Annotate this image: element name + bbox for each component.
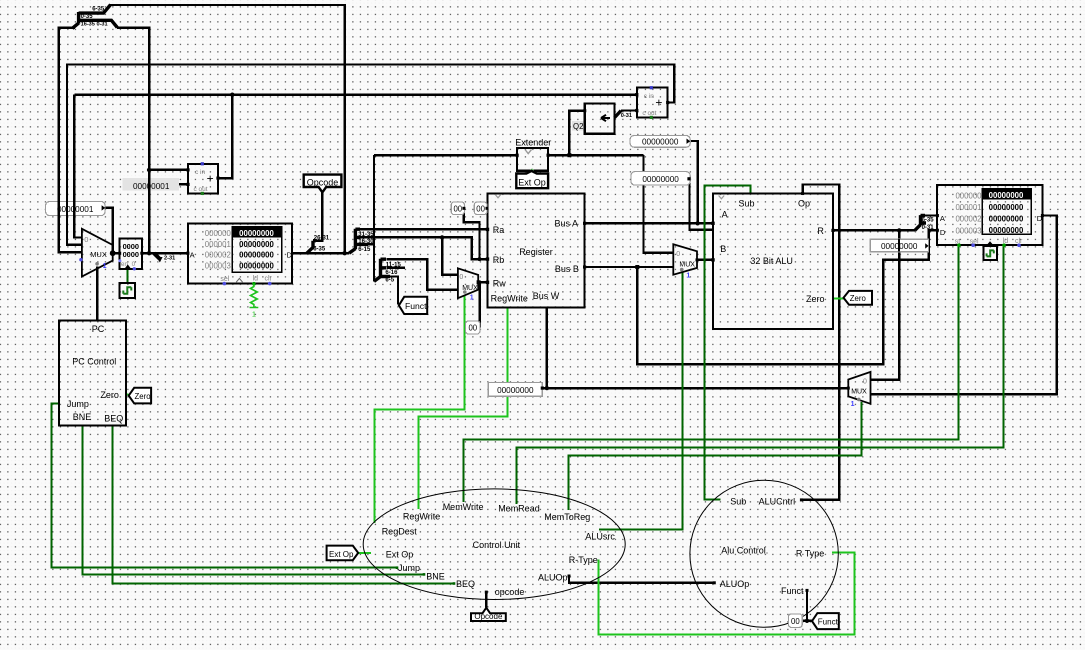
memory RAM1 sel pin [971,243,975,247]
svg-text:6-35: 6-35 [922,217,935,223]
svg-text:1: 1 [686,273,690,280]
memory RAM1 A pin label [940,214,945,223]
Control-Unit title [473,540,521,550]
svg-text:Funct: Funct [405,301,427,311]
svg-text:00000000: 00000000 [239,240,274,249]
svg-text:0-31: 0-31 [621,113,632,119]
alu A1 title [750,256,793,266]
Control-Unit ALUOp pin label [538,573,568,583]
Control-Unit opcode pin label [495,587,525,597]
adder U1 carry-out pin [201,192,204,195]
memory ROM1 sel pin [223,282,227,286]
adder U2 c-in label [644,93,655,100]
splitter S2 labels [313,236,330,253]
memory RAM1 st pin [957,243,961,247]
memory ROM1 ld pin [252,282,256,286]
register-file RF1 BusB label [555,264,579,274]
junction rt field node [440,235,444,239]
svg-text:Opcode: Opcode [307,178,339,188]
svg-text:c out: c out [642,110,656,117]
junction Funct tunnel node [805,619,809,623]
probe P4 value 00 [474,202,488,215]
shifter Q2 arrow icon [601,115,610,121]
svg-text:Sub: Sub [739,199,755,209]
memory RAM1 D-out pin label [1037,214,1043,223]
svg-text:BNE: BNE [73,412,92,422]
svg-text:0000: 0000 [123,250,139,259]
memory ROM1 D pin label [287,250,293,259]
svg-text:6-16: 6-16 [385,270,398,276]
probe P6 value 00000000 [631,172,691,186]
svg-text:000000: 000000 [955,192,982,201]
wire: probe2 tap to ALU second input [689,179,713,230]
subcircuit PC-Control title [72,356,116,366]
wire net ExtOp stub at Control Unit [358,552,371,554]
svg-text:00000000: 00000000 [989,191,1024,200]
resistor R2 pull-up on ld [250,284,259,319]
svg-text:000002: 000002 [955,215,981,224]
svg-text:BEQ: BEQ [104,414,123,424]
svg-text:00000000: 00000000 [239,261,274,270]
svg-text:Opcode: Opcode [474,612,503,621]
pin square Register Rb [486,257,489,260]
mux M4 select dot [857,398,861,402]
subcircuit PC-Control BNE label [73,412,92,422]
constant K1 00000001 [123,178,180,191]
alu A1 Sub label [739,199,755,209]
adder U1 plus sign [207,172,214,186]
svg-text:Register: Register [519,247,553,257]
svg-text:Sub: Sub [730,497,746,507]
svg-text:c in: c in [644,93,655,100]
memory ROM1 clr pin [268,282,272,286]
tunnel Opcode at Control Unit [471,608,506,622]
wire net Zero stub at PC Control [126,394,129,396]
pin square memory A [936,214,939,217]
svg-text:1: 1 [470,294,474,301]
svg-text:00000000: 00000000 [642,138,679,147]
Control-Unit RegDest pin label [382,527,418,537]
wire: rd field to RegDst mux input 1 [387,259,458,290]
register R1 value line1 [123,242,139,251]
svg-text:MemWrite: MemWrite [443,502,484,512]
svg-text:D: D [940,228,946,237]
splitter S6 label [621,113,632,119]
mux M4 input 0 label [863,379,867,386]
pin square opcode pin [485,591,488,594]
adder U1 c-in label [195,169,206,176]
register R1 value line2 [123,250,139,259]
svg-text:000001: 000001 [205,240,231,249]
svg-text:00: 00 [468,324,477,333]
svg-text:0-31: 0-31 [922,225,935,231]
mux M1 (next PC select) [82,229,113,277]
Alu-Control Funct pin label [781,586,804,596]
pin square mux M4 output [847,387,850,390]
pin square ALU Op [801,192,804,195]
svg-text:Ra: Ra [493,225,505,235]
alu A1 Op label [798,198,810,208]
mux M3 select value 1 [686,273,690,280]
svg-text:Zero: Zero [850,294,867,303]
mux M1 select value 1 [103,263,107,270]
probe P8 value 00000000 [488,382,544,396]
svg-text:RegWrite: RegWrite [403,512,440,522]
svg-text:A: A [722,209,728,219]
label Q2 [572,121,584,131]
subcircuit Alu-Control ellipse [690,480,838,627]
tunnel Zero at PC Control [129,388,151,404]
memory RAM1 data rows [989,203,1024,235]
adder U2 plus sign [655,96,662,110]
svg-text:MemToReg: MemToReg [544,512,590,522]
memory ROM1 data row0 highlighted [232,227,281,238]
Control-Unit MemWrite pin label [443,502,484,512]
mux M2 (RegDst) [458,268,478,298]
wire: ALU result R to memory address splitter and MemToReg mux 0 [833,230,915,379]
splitter S1 labels [81,7,108,28]
Control-Unit ALUsrc pin label [585,532,615,542]
svg-text:ALUCntrl: ALUCntrl [759,497,796,507]
splitter S3 labels [358,232,374,253]
adder U2 carry-in pin [650,86,653,89]
svg-text:Bus A: Bus A [555,218,579,228]
shifter Q2 body [585,104,615,134]
wire: immediate field vertical to Extender and splitter S4 [355,155,374,281]
clock CLK1 [120,283,135,298]
svg-text:Funct: Funct [818,618,839,627]
wire: Opcode tunnel drop to splitter S2 [313,192,322,240]
svg-text:PC: PC [92,324,105,334]
probe P9 value 00000000 [870,239,928,252]
splitter S6 shifter output 0-31 [615,111,622,118]
wire net ALUsrc (mux select to Control Unit) [599,272,683,530]
wire: splitter S7 to memory address A [921,214,938,216]
register-file RF1 BusA label [555,218,579,228]
junction PC output node [147,251,151,255]
svg-text:6-5: 6-5 [385,278,394,284]
svg-text:0: 0 [84,235,88,244]
svg-text:Zero: Zero [100,390,119,400]
memory RAM1 data row0 highlighted [982,189,1031,200]
wire overlay: jump-target vertical over probe P1 [58,201,60,217]
memory ROM1 A pin label [190,251,195,260]
pin square adder U1 in b [186,183,189,186]
adder U1 carry-in pin [201,162,204,165]
svg-text:Jump: Jump [67,399,89,409]
svg-text:32 Bit ALU: 32 Bit ALU [750,256,793,266]
pin square ALU B [711,258,714,261]
pin square Register Ra [486,228,489,231]
pin square ALUOp start [568,575,571,578]
register-file RF1 facing marker [495,195,501,198]
wire: splitter S4 middle stub [387,267,405,269]
svg-text:R-Type: R-Type [569,555,598,565]
pin square regfile BusA [583,222,586,225]
wire: memory data out to MemToReg mux input 1 [871,216,1057,395]
svg-text:c out: c out [194,186,208,193]
alu A1 facing marker [719,196,725,199]
svg-text:D: D [287,250,293,259]
svg-text:MUX: MUX [851,389,867,396]
svg-text:Rw: Rw [493,278,506,288]
Control-Unit R-Type pin label [569,555,598,565]
Alu-Control Sub pin label [730,497,746,507]
svg-text:000003: 000003 [955,226,981,235]
mux M3 input 0 label [676,251,680,258]
wire: shifter Q2 output to adder U2 input b [621,109,637,111]
svg-text:R Type: R Type [796,548,824,558]
adder U2 (branch target) [637,88,668,118]
svg-text:+: + [655,96,662,110]
svg-text:R: R [817,226,824,236]
wire: MemToReg mux output to Register Bus W [542,307,848,388]
wire: ALUSrc mux output to ALU input B [697,259,713,261]
svg-text:B: B [720,244,726,254]
pin square ALU R [831,229,834,232]
wire net R-Type (Control Unit to Alu Control) [599,553,855,635]
mux M3 (ALUSrc) [673,244,697,274]
wire net MemRead (memory ld pin to Control Unit) [517,245,1004,504]
tunnel Zero at ALU [844,291,873,305]
wire net BNE [83,426,425,575]
svg-text:0: 0 [132,261,136,268]
wire overlay: PC+1 vertical over probe P1 [73,201,75,217]
svg-text:6-35: 6-35 [92,7,105,13]
tunnel ExtOp at Control Unit [327,546,359,561]
splitter S1 jump-field combiner (legs 6-35 / 0-35 / 16-35,0-31) [72,5,117,29]
svg-text:PC Control: PC Control [72,356,116,366]
wire: jump-field branch top (instr bits to splitter), y=5 [109,5,344,253]
junction Extender output to shifter [567,153,571,157]
register R1 clock marker [124,265,131,269]
memory RAM1 clr pin [1017,243,1021,247]
register R1 enable label [121,261,136,268]
svg-text:Alu Control.: Alu Control. [721,546,768,556]
pin square ROM A [186,252,189,255]
pin square extender in [516,154,519,157]
svg-text:0: 0 [676,251,680,258]
mux M1 select dot [95,262,99,266]
wire: PC mux select from PC Control [96,267,98,321]
register-file RF1 BusW label [533,291,560,301]
svg-text:6-15: 6-15 [358,247,371,253]
memory RAM1 data column frame [982,189,1031,234]
register R1 (PC) [120,239,142,269]
splitter S2 opcode tap (leg 26-31) [307,241,316,254]
svg-text:Jump: Jump [398,563,420,573]
subcircuit PC-Control BEQ label [104,414,123,424]
Alu-Control R-Type pin label [796,548,824,558]
memory RAM1 bottom pin labels [955,238,1023,246]
svg-text:00000000: 00000000 [642,175,679,184]
svg-text:MUX: MUX [90,250,107,259]
wire net RegDest (RegDst mux select to Control Unit) [375,295,465,523]
pin square ALU A [711,222,714,225]
svg-text:Zero: Zero [806,294,825,304]
svg-text:Q2: Q2 [573,122,583,131]
extender X1 ExtOp pin [530,169,534,173]
adder U1 c-out label [194,186,208,193]
extender X1 facing marker [525,150,532,154]
pin square Funct top [806,589,809,592]
subcircuit PC-Control PC label [92,324,105,334]
wire net BEQ [113,426,455,584]
wire: Funct pin drop to Funct tunnel and 00 probe [802,590,812,620]
svg-text:2-31: 2-31 [164,256,175,262]
wire: splitter leg to PC-high vertical, y=28 [117,28,149,254]
Control-Unit RegWrite pin label [403,512,440,522]
wire: funct field down to Funct tunnel [387,277,398,305]
svg-text:00000000: 00000000 [989,226,1024,235]
splitter S4 rd/funct fields (11-15 / 6-10 / 0-5) [374,259,390,282]
wire: probe tap on next-PC node [104,208,113,253]
alu A1 body (32 Bit ALU) [713,194,833,330]
Control-Unit Jump pin label [398,563,420,573]
svg-text:RegDest: RegDest [382,527,418,537]
register R1 enable pin [118,259,121,262]
subcircuit PC-Control Zero label [100,390,119,400]
probe P10 value 00 [788,614,802,628]
mux M2 input 0 label [459,274,463,281]
extender X1 title [515,137,551,147]
splitter S5 PC bit tap 2-31 [154,253,159,258]
pin square mux M1 output [110,250,116,256]
probe P7 value 00 [466,321,481,334]
svg-text:1: 1 [103,263,107,270]
junction Rb probe tap [478,257,482,261]
Alu-Control ALUCntrl pin label [759,497,796,507]
subcircuit Control-Unit ellipse [363,489,625,600]
svg-text:Extender: Extender [515,137,551,147]
svg-text:0-35: 0-35 [81,14,94,20]
svg-text:0: 0 [459,274,463,281]
alu A1 R label [817,226,824,236]
splitter S3 register fields (31-35 / 16-30 / 6-15) [349,229,368,253]
wire: probe tap on Rb address [464,208,480,259]
mux M4 (MemToReg) [848,372,870,404]
wire net MemWrite (memory st pin to Control Unit) [464,245,959,502]
tunnel Funct at register fields [399,297,427,314]
junction instruction bus to top splitter [342,251,346,255]
wire: immediate to Extender input [374,154,518,156]
tunnel Opcode (instruction opcode) [304,175,342,193]
pin square adder U2 in b [635,109,638,112]
svg-text:Ext Op: Ext Op [518,178,546,188]
svg-text:Bus W: Bus W [533,291,560,301]
junction on PC+1 bus at adder U1 output [230,93,234,97]
register-file RF1 body [488,193,585,307]
svg-text:RegWrite: RegWrite [491,294,528,304]
svg-text:00000000: 00000000 [239,251,274,260]
junction Bus W probe tap [545,386,549,390]
probe P1 value 00000001 [46,202,106,216]
svg-text:00000000: 00000000 [239,229,274,238]
pin square adder U1 out [216,177,219,180]
splitter S4 labels [385,262,401,283]
extender X1 body [517,148,548,171]
mux M2 MUX label [462,285,478,292]
register-file RF1 Rb label [493,255,505,265]
wire overlay: branch-target vertical over probe P1 [66,201,68,217]
pin square adder U2 out [666,101,669,104]
memory ROM1 data column frame [232,227,281,272]
svg-text:BEQ: BEQ [456,579,475,589]
memory RAM1 (data memory) body [937,185,1043,245]
Control-Unit MemToReg pin label [544,512,590,522]
mux M1 input 0 label [84,235,88,244]
svg-text:26-31: 26-31 [314,236,330,242]
mux M2 select value 1 [470,294,474,301]
junction PC feed to adder U1 [147,168,151,172]
svg-text:sel: sel [220,276,229,283]
svg-text:16-30: 16-30 [358,239,374,245]
svg-text:Funct: Funct [781,586,804,596]
mux M1 unused input pin [79,258,82,261]
register-file RF1 RegWrite label [491,294,528,304]
adder U1 (PC+1) [188,164,218,194]
subcircuit PC-Control Jump label [67,399,89,409]
wire: Bus A to ALU input A [585,141,713,223]
pin square ALUOp end [713,581,716,584]
pin square ALUCntrl end [800,498,803,501]
pin square register R1 in [118,252,121,255]
wire: clock to PC register [127,269,129,283]
svg-text:1: 1 [252,310,256,319]
svg-text:00000000: 00000000 [989,203,1024,212]
clock CLK2 [983,246,997,260]
svg-text:A: A [940,214,945,223]
svg-text:Control Unit: Control Unit [473,540,521,550]
svg-text:clr: clr [265,276,273,283]
svg-text:ALUOp: ALUOp [538,573,568,583]
svg-text:Zero: Zero [135,392,152,401]
svg-text:Bus B: Bus B [555,264,579,274]
svg-text:Rb: Rb [493,255,505,265]
svg-text:BNE: BNE [426,571,445,581]
svg-text:Ext Op: Ext Op [329,550,354,559]
wire net Jump (PC Control to Control Unit) [52,404,398,568]
svg-text:00: 00 [791,617,800,626]
memory ROM1 bottom pin labels [220,276,272,283]
wire: constant 00000001 to adder U1 input b [179,183,188,185]
alu A1 Zero label [806,294,825,304]
alu A1 B label [720,244,726,254]
wire: Bus B to ALUSrc mux input 1 and memory data-in [585,230,938,364]
svg-text:000002: 000002 [205,251,231,260]
svg-text:opcode: opcode [495,587,525,597]
mux M4 select value 1 [851,401,855,408]
adder U2 carry-out pin [650,116,653,119]
svg-text:ld: ld [253,276,259,283]
wire: PC register output to instruction ROM address A [142,252,188,254]
wire overlay: PC vertical over constant K1 [148,177,150,191]
wire: PC+1 bus from adder U1 to PC mux input 0 and adder U2, y=95 [74,95,636,238]
mux M3 select dot [680,268,684,272]
splitter S7 memory address (6-35 / 0-31) [915,215,926,230]
memory RAM1 address column [955,192,982,236]
svg-text:Op: Op [798,198,810,208]
svg-text:Ext Op: Ext Op [386,550,414,560]
svg-text:1: 1 [851,401,855,408]
splitter S5 label [156,256,175,263]
Control-Unit MemRead pin label [498,504,540,514]
pin square M2 output [477,280,481,284]
svg-text:16-35 0-31: 16-35 0-31 [81,21,108,27]
Alu-Control ALUOp pin label [720,579,750,589]
pin square Q2 in [583,109,586,112]
wire: Extender output bus, y=155 [548,111,644,156]
